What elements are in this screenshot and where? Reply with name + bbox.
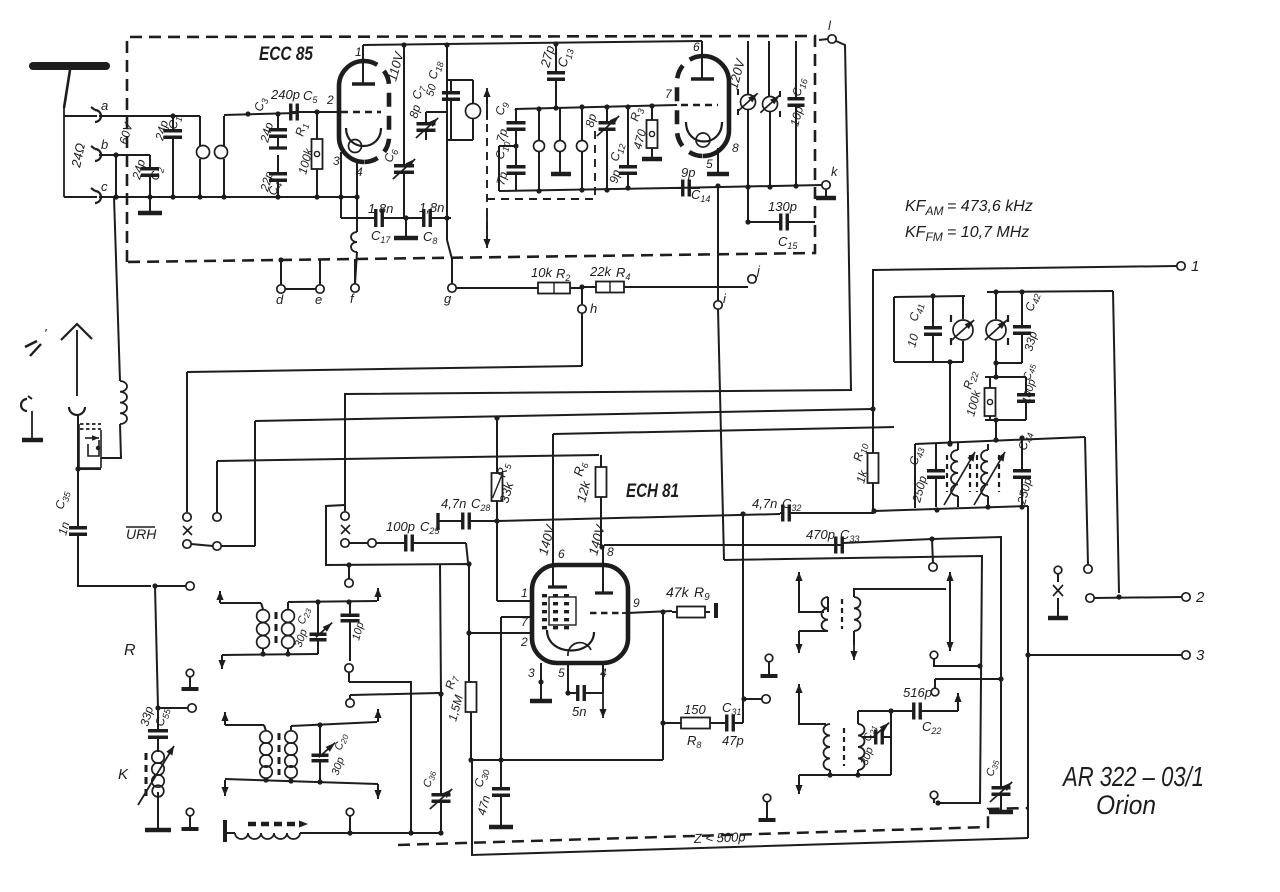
- terminal i wire up: [715, 183, 720, 301]
- wire tank to C17 row: [446, 140, 448, 218]
- V1a pin4 lead: [354, 162, 363, 232]
- ECH81 label: [626, 481, 679, 502]
- svg-text:4,7n: 4,7n: [441, 496, 466, 511]
- capacitor C6 trimmer: [381, 45, 415, 218]
- terminal 2: [1182, 589, 1205, 606]
- IFT mid upper core: [275, 612, 278, 648]
- label 140V a: [535, 522, 558, 556]
- ground mid: [394, 215, 418, 238]
- svg-text:9p: 9p: [681, 165, 695, 180]
- IFT2R trimmer C21: [859, 723, 891, 767]
- switch stub C22: [931, 679, 939, 696]
- FM IFT primary trim: [738, 89, 758, 115]
- wire C31 up: [740, 511, 746, 723]
- svg-text:a: a: [101, 98, 108, 113]
- svg-text:ECC 85: ECC 85: [259, 44, 313, 65]
- V1b grid dashes: [665, 87, 718, 105]
- car antenna bar: [22, 438, 43, 443]
- C35b ground: [989, 810, 1013, 815]
- svg-text:8: 8: [732, 141, 739, 155]
- svg-text:1: 1: [521, 586, 528, 600]
- junction C8 right: [444, 215, 449, 220]
- label KF AM: [905, 198, 1033, 218]
- wire C35 down: [78, 560, 151, 586]
- svg-text:240p: 240p: [270, 87, 300, 102]
- IFT mid lower right coil: [285, 726, 297, 782]
- antenna coupler box: [78, 414, 101, 469]
- oscillator tank C18: [424, 45, 480, 140]
- terminal d: [276, 257, 285, 307]
- IFT1R right coil: [854, 589, 946, 631]
- V1a pin4 coil: [351, 232, 357, 284]
- IFT mid lower trimmer C20: [312, 725, 351, 783]
- IFT mid upper bottom: [218, 651, 318, 669]
- capacitor C44 250p: [1013, 430, 1036, 507]
- wire b: [99, 152, 150, 157]
- title AR: [1061, 761, 1204, 792]
- antenna coil: [114, 197, 127, 424]
- AM antenna jack: [69, 407, 85, 415]
- C22 right arrow: [954, 693, 961, 711]
- switch open contacts: [1084, 437, 1092, 573]
- wire C25 drop: [466, 543, 472, 567]
- coil L42: [985, 292, 1008, 363]
- capacitor C1 24p: [152, 114, 184, 197]
- triode V1b envelope: [677, 56, 729, 156]
- switch bank1 right: [191, 513, 255, 550]
- wire C35b node: [935, 676, 1004, 681]
- capacitor C25 100p: [376, 519, 466, 552]
- FM IFT primary: [741, 41, 756, 190]
- ECH81 pin4: [600, 663, 607, 693]
- coupling coil primary: [197, 116, 210, 197]
- wire R down: [155, 586, 196, 727]
- coil to box: [75, 424, 121, 472]
- wire to terminal 3: [1025, 652, 1182, 657]
- title Orion: [1096, 790, 1156, 820]
- tank2 top rail: [987, 289, 1113, 294]
- chassis point 1: [182, 669, 199, 689]
- svg-text:130p: 130p: [768, 199, 797, 214]
- rail 140V anode: [553, 427, 894, 434]
- capacitor C36 trimmer: [421, 769, 452, 833]
- capacitor C43 250p: [906, 443, 945, 507]
- ECH81 inner rect: [549, 597, 576, 625]
- wire i down: [718, 309, 724, 560]
- svg-text:e: e: [315, 292, 322, 307]
- svg-text:Z < 500p: Z < 500p: [693, 829, 746, 846]
- capacitor C22 516p: [891, 685, 958, 736]
- ECH81 pin3: [528, 663, 544, 685]
- tank2 bottom: [993, 360, 1022, 377]
- IFT mid upper trimmer C23: [293, 602, 333, 654]
- ECH81 bar triode: [595, 591, 613, 594]
- capacitor C16 10p: [787, 41, 809, 189]
- IF left vertical: [499, 143, 519, 191]
- svg-text:10k: 10k: [531, 265, 553, 280]
- gang dashed link: [483, 88, 490, 248]
- Z label: [693, 829, 746, 846]
- wire y760: [471, 723, 663, 760]
- svg-text:5: 5: [706, 157, 713, 171]
- svg-text:3: 3: [1196, 647, 1205, 664]
- label K: [118, 766, 129, 783]
- coupling coil secondary: [215, 116, 228, 197]
- svg-text:c: c: [101, 179, 108, 194]
- tank1 right wire: [962, 296, 964, 362]
- capacitor 10p: [341, 602, 367, 661]
- svg-text:R: R: [124, 642, 136, 659]
- terminal h: [578, 287, 597, 316]
- IFT mid lower left coil: [260, 725, 272, 781]
- rail AVC: [255, 409, 873, 546]
- resistor R4 22k: [582, 264, 748, 293]
- V1b pins 5 8: [706, 141, 739, 174]
- car antenna jack: [21, 396, 32, 438]
- terminal l: [819, 18, 836, 43]
- terminal f: [350, 259, 359, 306]
- label 110V: [384, 49, 406, 83]
- wire C22 node: [858, 708, 894, 775]
- svg-text:9: 9: [633, 596, 640, 610]
- svg-text:= 10,7 MHz: = 10,7 MHz: [947, 224, 1029, 241]
- capacitor C15 130p: [745, 188, 815, 251]
- ground below C2: [138, 197, 162, 213]
- V1a cathode: [346, 128, 381, 153]
- junction h: [579, 284, 584, 289]
- capacitor C10 7p: [492, 139, 525, 191]
- wire h down: [187, 313, 582, 512]
- link to rail437: [995, 420, 997, 440]
- IFT mid lower bottom: [221, 777, 381, 799]
- wire to C35: [77, 469, 79, 521]
- terminal a jack: [91, 98, 108, 122]
- wire c bottom rail: [64, 194, 356, 199]
- svg-text:8: 8: [607, 545, 614, 559]
- capacitor C35b trimmer: [984, 679, 1012, 810]
- link tank1 tank3: [947, 362, 952, 447]
- ECH81 pin8 lead: [603, 545, 614, 593]
- resistor R10 1k: [850, 441, 878, 513]
- osc switch circle A: [345, 562, 353, 587]
- svg-text:4: 4: [356, 165, 363, 179]
- ECH81 pin1 wire: [497, 521, 532, 601]
- triode V1a envelope: [339, 61, 389, 162]
- V1b cathode: [686, 122, 722, 147]
- coil K ground: [145, 792, 171, 830]
- capacitor C8 1.8n: [406, 200, 451, 246]
- antenna lead down: [63, 108, 65, 197]
- label 120V: [725, 56, 748, 90]
- wire pin3 down: [340, 197, 342, 218]
- capacitor C35 1n: [52, 488, 87, 560]
- osc switch circle C: [346, 693, 439, 707]
- svg-text:= 473,6 kHz: = 473,6 kHz: [947, 198, 1033, 215]
- terminal c jack: [91, 179, 108, 203]
- IF coil 3: [577, 107, 588, 190]
- svg-text:K: K: [118, 766, 129, 783]
- osc link down: [438, 564, 443, 772]
- svg-text:1,8n: 1,8n: [419, 200, 444, 215]
- wire to terminal 1: [870, 266, 1177, 452]
- mixer out wire: [744, 695, 770, 703]
- chassis point 2: [182, 808, 199, 829]
- svg-text:b: b: [101, 137, 108, 152]
- top supply wire: [363, 41, 702, 48]
- tube ECC85 label: [259, 44, 313, 65]
- anode supply wire: [724, 556, 982, 803]
- capacitor C32 4.7n: [752, 496, 874, 522]
- IFT1R right link arrows: [946, 572, 953, 651]
- svg-text:2: 2: [326, 93, 334, 107]
- label R: [124, 642, 136, 659]
- wire R9 junction down: [660, 612, 665, 726]
- resistor R22 100k: [960, 369, 995, 420]
- svg-text:2: 2: [520, 635, 528, 649]
- terminal i: [714, 291, 727, 309]
- car antenna symbol: [25, 326, 47, 356]
- coil K: [138, 746, 174, 805]
- IF coil 2: [551, 108, 571, 174]
- svg-text:470p: 470p: [806, 527, 835, 542]
- IFT mid lower arrow: [221, 712, 264, 725]
- svg-text:1: 1: [1191, 258, 1199, 275]
- osc coil B dashes: [977, 455, 999, 492]
- svg-text:h: h: [590, 301, 597, 316]
- svg-text:5n: 5n: [572, 704, 586, 719]
- svg-text:6: 6: [693, 40, 700, 54]
- ECH81 anode dashes: [590, 612, 628, 615]
- svg-text:150: 150: [684, 702, 706, 717]
- ECH81 pin7 wire: [501, 615, 532, 784]
- osc coil A dashes: [947, 455, 970, 492]
- svg-text:47k: 47k: [666, 584, 690, 600]
- svg-text:22k: 22k: [589, 264, 612, 279]
- label 60V: [116, 121, 135, 146]
- capacitor C41 10: [904, 296, 942, 362]
- capacitor C11 8p trimmer: [582, 107, 619, 190]
- IFT2R left arrows: [795, 684, 826, 724]
- svg-text:1,8n: 1,8n: [368, 201, 393, 216]
- svg-text:g: g: [444, 291, 452, 306]
- svg-text:3: 3: [333, 154, 340, 168]
- svg-text:AR 322 – 03/1: AR 322 – 03/1: [1061, 761, 1204, 792]
- capacitor C33 470p: [604, 527, 859, 554]
- resistor R6 12k: [570, 455, 606, 550]
- ECH81 pin6 lead: [553, 434, 565, 587]
- capacitor C55 33p: [137, 704, 173, 747]
- svg-text:4,7n: 4,7n: [752, 496, 777, 511]
- capacitor C9 7p: [492, 100, 525, 146]
- svg-text:d: d: [276, 292, 284, 307]
- ECH81 bar hexode: [548, 585, 567, 588]
- V1a pin1 label: [355, 45, 362, 59]
- ground R3: [642, 157, 662, 162]
- capacitor C3 24p: [251, 96, 287, 148]
- FM IFT secondary trim: [760, 91, 780, 117]
- capacitor C4 22p: [257, 155, 287, 197]
- wire d-e: [285, 288, 316, 290]
- padder tap: [346, 808, 354, 833]
- capacitor C42 33p: [1013, 291, 1043, 363]
- switch bank2: [341, 512, 376, 547]
- wire rail437 left: [914, 444, 916, 508]
- R22 C45 top node: [985, 374, 1026, 379]
- capacitor C5 240p: [270, 87, 333, 121]
- IF grid rail: [515, 103, 677, 111]
- svg-text:1: 1: [355, 45, 362, 59]
- X switch to ground: [1048, 566, 1068, 618]
- switch bank1 left: [183, 513, 192, 548]
- IFT mid lower core: [278, 733, 281, 775]
- V1a anode: [352, 45, 375, 84]
- svg-text:Orion: Orion: [1096, 790, 1156, 820]
- svg-text:2: 2: [1195, 589, 1205, 606]
- capacitor C28 4.7n: [438, 496, 497, 530]
- IFT2R switch stub bottom: [930, 791, 940, 805]
- IFT1R left arrows: [795, 572, 824, 612]
- wire C33 right: [843, 536, 1001, 679]
- svg-text:ECH 81: ECH 81: [626, 481, 679, 502]
- label 140V b: [585, 522, 608, 556]
- rail437: [915, 435, 1085, 445]
- wire bank1 up: [216, 461, 218, 513]
- ECH81 pin9 wire: [628, 596, 672, 615]
- resistor R9 47k: [666, 584, 716, 618]
- capacitor C45 100p: [1017, 362, 1038, 420]
- IFT2R bottom: [795, 770, 891, 794]
- IFT mid lower top wire: [291, 709, 382, 728]
- coil L41: [951, 315, 974, 345]
- svg-text:6: 6: [558, 547, 565, 561]
- switch stub T1R: [930, 651, 982, 668]
- chassis point 4: [759, 794, 776, 820]
- wire to terminal 2: [1086, 594, 1182, 602]
- wire tank2 right down: [1113, 291, 1119, 593]
- label KF FM: [905, 224, 1029, 244]
- capacitor C13 27p: [537, 44, 576, 107]
- pin2 link up: [326, 505, 469, 633]
- tank1 top rail: [894, 293, 965, 298]
- capacitor C30 47n: [471, 757, 513, 827]
- svg-text:100p: 100p: [386, 519, 415, 534]
- resistor R3 470: [627, 106, 657, 159]
- dashed bottom box: [398, 808, 1029, 845]
- V1a pin3 lead: [333, 152, 341, 197]
- capacitor C12 9p: [606, 107, 637, 188]
- IFT mid upper top wire: [288, 588, 382, 605]
- wire l down: [345, 41, 851, 511]
- solid bottom rail: [472, 760, 1028, 855]
- capacitor C2 24p: [129, 155, 166, 197]
- osc coil A arrow: [944, 452, 975, 505]
- resistor R5 33k: [492, 418, 517, 521]
- osc coil B: [981, 444, 988, 507]
- wire a to C1 node: [64, 113, 200, 118]
- capacitor C7 8p trimmer: [406, 83, 447, 140]
- IFT mid upper right coil: [282, 602, 295, 654]
- pin4 arrow: [599, 693, 606, 718]
- IFT1R core: [841, 599, 843, 629]
- IFT1R left down arrow: [795, 631, 828, 653]
- AM antenna arrow: [61, 324, 92, 396]
- resistor R1 100k: [292, 109, 322, 197]
- wire k rail: [672, 185, 822, 188]
- capacitor C31 47p: [710, 700, 744, 748]
- V1b anode: [691, 40, 714, 79]
- rail switch S2: [217, 455, 599, 461]
- capacitor 5n: [568, 685, 603, 719]
- stub b-c: [113, 155, 118, 200]
- ECH81 cathode: [547, 630, 594, 656]
- resistor R2 10k: [456, 265, 582, 294]
- terminal 1: [1177, 258, 1200, 275]
- ECH81 pin5: [558, 663, 571, 696]
- ECH81 pin2 wire: [466, 630, 532, 649]
- tank1 bottom: [894, 359, 963, 364]
- URH label: [126, 526, 157, 542]
- IF coil 1: [534, 109, 545, 191]
- wire secondary top: [224, 111, 297, 116]
- terminal g: [444, 259, 456, 306]
- wire 1028 down: [1027, 506, 1029, 838]
- wire g up: [447, 218, 452, 259]
- svg-text:47p: 47p: [722, 733, 744, 748]
- tank1 left wire: [893, 297, 895, 362]
- IFT2R right coil: [858, 711, 865, 770]
- osc link mid: [345, 664, 414, 836]
- terminal j: [748, 263, 761, 283]
- gang dashed sub-box: [487, 126, 595, 199]
- svg-text:5: 5: [558, 666, 565, 680]
- chassis point 3: [761, 654, 778, 676]
- terminal b jack: [91, 137, 108, 161]
- tube ECH81 envelope: [532, 565, 628, 663]
- switch contact stub: [929, 539, 937, 571]
- svg-text:3: 3: [528, 666, 535, 680]
- IFT1R left coil: [821, 597, 828, 631]
- ECH81 grid dots: [542, 594, 569, 629]
- detector wire: [871, 504, 1028, 513]
- IFT mid upper arrow: [216, 591, 261, 603]
- antenna dipole symbol: [33, 66, 106, 108]
- IFT2R left coil: [824, 724, 830, 770]
- svg-text:516p: 516p: [903, 685, 932, 700]
- IFT1R right bottom: [850, 631, 857, 660]
- svg-text:URH: URH: [126, 526, 157, 542]
- label 24 ohm: [68, 142, 88, 170]
- R22 C45 bottom node: [985, 417, 1026, 422]
- IF bottom rail: [499, 185, 672, 193]
- IFT2R core: [843, 728, 845, 766]
- V1a grid dashes: [341, 111, 381, 114]
- capacitor C17 1.8n: [341, 201, 406, 245]
- padder coil: [225, 820, 444, 842]
- resistor R8 150: [663, 702, 721, 750]
- capacitor C14 9p: [668, 165, 710, 204]
- terminal k: [816, 164, 839, 198]
- pin3 ground: [530, 682, 552, 701]
- terminal e: [315, 260, 324, 307]
- osc coil B arrow: [974, 452, 1005, 505]
- V1a pin2 wire: [326, 93, 341, 112]
- IFT mid upper left coil: [257, 603, 270, 654]
- grid wire to C32: [494, 514, 780, 524]
- dashed enclosure FM tuner box: [127, 36, 815, 262]
- resistor R7 1.5M: [442, 633, 476, 763]
- terminal 3: [1182, 647, 1205, 664]
- FM IFT secondary: [763, 41, 778, 190]
